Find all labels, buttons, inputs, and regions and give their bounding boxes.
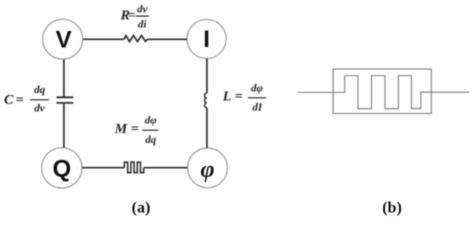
memristor device (b): meander	[333, 76, 431, 109]
memristor device (b): body box	[333, 69, 431, 114]
svg-text:Q: Q	[52, 155, 71, 182]
inductor L	[205, 93, 207, 108]
memristor M	[124, 162, 143, 173]
wire inductor to phi	[206, 108, 208, 148]
node phi	[188, 148, 228, 188]
node Q	[42, 148, 82, 188]
wire V to capacitor	[63, 59, 65, 96]
node I	[187, 19, 226, 58]
resistor R	[124, 36, 147, 42]
label M=dphi/dq	[114, 115, 159, 147]
svg-text:dv: dv	[34, 102, 45, 114]
wire Q to memristor	[82, 167, 124, 169]
svg-text:I: I	[203, 26, 210, 53]
svg-text:V: V	[56, 27, 72, 54]
svg-text:dφ: dφ	[251, 82, 264, 94]
svg-text:=: =	[235, 89, 243, 104]
svg-text:di: di	[138, 18, 148, 30]
memristor device (b): left lead	[298, 91, 333, 93]
svg-text:M: M	[114, 122, 128, 137]
capacitor C	[57, 97, 74, 103]
svg-text:=: =	[131, 122, 139, 137]
label R=dv/di	[120, 4, 149, 31]
svg-text:L: L	[222, 89, 232, 104]
svg-text:=: =	[16, 93, 24, 108]
svg-text:dq: dq	[145, 134, 157, 146]
svg-text:dφ: dφ	[145, 115, 158, 127]
svg-text:(a): (a)	[132, 199, 151, 216]
svg-text:dv: dv	[137, 4, 148, 16]
svg-text:=: =	[128, 7, 135, 22]
svg-text:φ: φ	[200, 157, 214, 183]
label C=dq/dv	[4, 84, 49, 114]
wire capacitor to Q	[63, 104, 65, 148]
svg-text:dq: dq	[34, 84, 46, 96]
label L=dphi/dI	[222, 82, 267, 113]
wire V to resistor	[83, 38, 124, 40]
memristor device (b): right lead	[431, 91, 469, 93]
svg-text:(b): (b)	[382, 200, 402, 217]
wire I to inductor	[206, 59, 208, 94]
svg-text:dI: dI	[252, 102, 263, 114]
node V	[43, 19, 83, 59]
svg-text:C: C	[4, 93, 14, 108]
wire memristor to phi	[144, 167, 188, 169]
wire resistor to I	[147, 38, 187, 40]
